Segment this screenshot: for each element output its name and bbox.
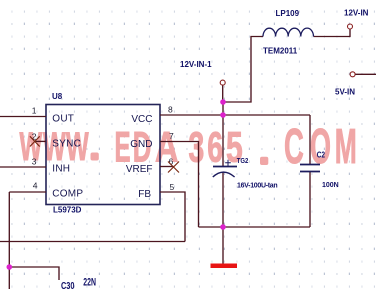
svg-text:COMP: COMP: [52, 188, 83, 199]
svg-text:12V-IN-1: 12V-IN-1: [180, 60, 212, 69]
port 12V-IN circle: [348, 24, 353, 29]
port 5V-IN circle: [350, 72, 355, 77]
TG2 plus sign: [225, 160, 231, 166]
svg-text:GND: GND: [130, 139, 152, 150]
wire 5V-IN port to right edge: [355, 73, 376, 75]
svg-text:1: 1: [32, 106, 37, 116]
svg-text:6: 6: [207, 123, 223, 171]
pin 6 stub: [160, 166, 174, 168]
junction dot node A: [220, 99, 226, 105]
svg-text:3: 3: [32, 157, 37, 167]
IC U8 body: [46, 105, 160, 205]
capacitor C2 top plate: [300, 164, 320, 166]
junction dot ground net: [220, 224, 226, 230]
capacitor TG2 curved plate: [213, 172, 235, 177]
svg-text:OUT: OUT: [52, 113, 74, 124]
wire pin7 GND down to ground net: [160, 142, 199, 228]
capacitor C2 bottom plate: [300, 171, 320, 173]
svg-text:100N: 100N: [322, 182, 339, 189]
wire FB net long horizontal: [0, 241, 185, 243]
wire COMP vertical to bottom: [8, 192, 10, 289]
wire ground net horizontal: [199, 226, 311, 228]
wire pin4 COMP horizontal: [9, 191, 46, 193]
svg-text:16V-100U-tan: 16V-100U-tan: [237, 183, 277, 190]
wire inductor right to 12V-IN port: [314, 29, 351, 37]
svg-text:7: 7: [169, 131, 174, 141]
wire junction to C30 horizontal: [9, 267, 59, 280]
svg-text:M: M: [335, 120, 357, 175]
port 12V-IN-1 circle: [220, 80, 225, 85]
svg-text:C2: C2: [317, 150, 325, 160]
svg-text:FB: FB: [138, 189, 151, 200]
svg-text:SYNC: SYNC: [52, 138, 81, 149]
svg-text:12V-IN: 12V-IN: [344, 9, 369, 18]
svg-text:3: 3: [189, 123, 205, 171]
svg-text:4: 4: [33, 181, 38, 191]
wire ground stem: [222, 227, 224, 264]
svg-text:L5973D: L5973D: [53, 206, 82, 215]
wire pin8 VCC to C2: [160, 114, 310, 116]
svg-text:VCC: VCC: [131, 114, 152, 125]
svg-text:TG2: TG2: [237, 157, 249, 165]
no-connect X pin 6: [168, 162, 179, 173]
svg-text:A: A: [155, 124, 178, 172]
wire node to inductor left: [223, 37, 263, 103]
watermark WWW.EDA365.COM: [20, 120, 357, 175]
wire TG2 bottom to ground net: [222, 172, 224, 227]
svg-text:C30: C30: [61, 280, 74, 289]
wire C2 top: [309, 115, 311, 165]
wire pin5 FB: [160, 192, 185, 242]
svg-text:TEM2011: TEM2011: [263, 47, 298, 56]
svg-text:O: O: [310, 120, 331, 175]
svg-text:8: 8: [168, 105, 173, 115]
svg-text:VREF: VREF: [126, 164, 153, 175]
svg-text:LP109: LP109: [276, 9, 300, 18]
svg-text:U8: U8: [52, 92, 63, 101]
no-connect X pin 2: [30, 136, 40, 146]
pin 2 stub: [35, 140, 46, 142]
wire 12V-IN-1 port down: [222, 85, 224, 102]
junction dot node B: [220, 112, 226, 118]
inductor LP109: [263, 28, 314, 36]
wire pin1 OUT to left edge: [0, 116, 46, 118]
svg-text:5V-IN: 5V-IN: [335, 88, 355, 97]
wire pin3 INH to left edge: [0, 166, 46, 168]
ground bar: [211, 264, 238, 269]
wire C2 bottom to ground net: [309, 172, 311, 228]
svg-text:5: 5: [170, 182, 175, 192]
junction dot COMP net: [7, 264, 13, 270]
capacitor TG2 top plate: [213, 166, 237, 168]
svg-text:INH: INH: [52, 163, 70, 174]
wire VCC node down to TG2: [222, 102, 224, 167]
svg-text:22N: 22N: [83, 276, 96, 288]
svg-text:C: C: [284, 120, 304, 174]
